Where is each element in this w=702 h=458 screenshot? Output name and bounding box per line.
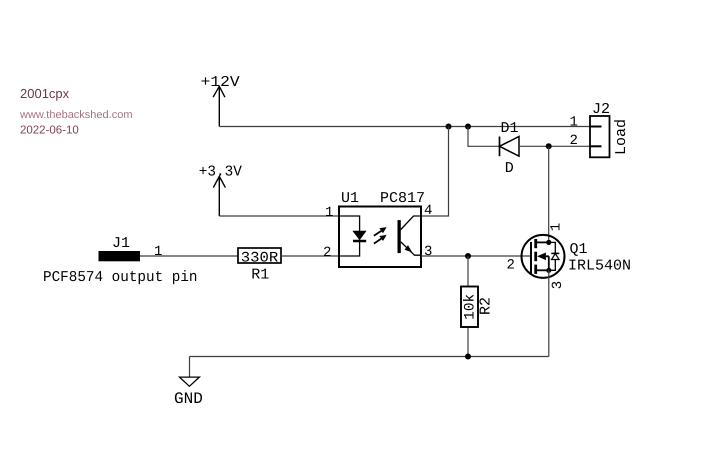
svg-text:U1: U1	[341, 190, 359, 207]
svg-text:2: 2	[570, 133, 578, 149]
ground	[174, 357, 203, 409]
svg-text:1: 1	[154, 244, 162, 260]
svg-text:PCF8574 output pin: PCF8574 output pin	[43, 269, 198, 286]
svg-text:2022-06-10: 2022-06-10	[20, 125, 79, 137]
svg-text:330R: 330R	[241, 250, 279, 266]
junction at D1 anode and Q1 drain	[546, 143, 552, 149]
transistor Q1	[522, 235, 632, 278]
junction at R2 bottom	[465, 354, 471, 360]
wire U1 pin 3 to Q1 gate	[421, 255, 531, 257]
svg-text:D1: D1	[501, 120, 519, 137]
diode D1	[500, 120, 520, 177]
svg-text:2: 2	[507, 258, 515, 274]
svg-text:1: 1	[325, 205, 333, 221]
junction on +12V rail above D1	[465, 124, 471, 130]
svg-text:+12V: +12V	[201, 74, 240, 91]
phototransistor inside U1	[398, 216, 422, 255]
svg-text:R1: R1	[251, 266, 269, 283]
junction at R2 top	[465, 253, 471, 259]
wire R1 to U1 pin 2	[281, 255, 339, 257]
svg-text:D: D	[505, 160, 514, 177]
junction on +12V rail above U1 pin 4	[446, 124, 452, 130]
wire R2 branch vertical	[467, 256, 469, 357]
svg-text:4: 4	[424, 203, 432, 219]
wire from +12V rail down to D1 cathode	[468, 127, 500, 147]
svg-text:R2: R2	[477, 297, 494, 315]
wire bottom ground rail	[190, 356, 549, 358]
photon arrows inside U1	[374, 227, 387, 244]
svg-text:3: 3	[424, 244, 432, 260]
svg-text:PC817: PC817	[380, 190, 425, 207]
connector J2	[590, 101, 630, 157]
resistor R2	[461, 287, 494, 328]
svg-text:GND: GND	[174, 390, 203, 408]
svg-text:1: 1	[549, 223, 565, 231]
wire Q1 drain vertical	[548, 146, 550, 242]
wire +12V top rail	[219, 126, 590, 128]
svg-text:IRL540N: IRL540N	[568, 258, 631, 275]
svg-text:1: 1	[570, 114, 578, 130]
svg-text:10k: 10k	[462, 294, 478, 320]
svg-text:Load: Load	[613, 119, 630, 155]
LED inside U1	[339, 216, 366, 256]
power symbol +12V	[201, 74, 240, 127]
op-amp style body of optocoupler U1 PC817	[339, 190, 425, 267]
svg-text:J2: J2	[592, 101, 610, 118]
svg-text:3: 3	[550, 281, 566, 289]
wire J1 to R1	[140, 255, 238, 257]
wire from +12V rail down to U1 pin 4	[421, 127, 449, 217]
connector J1	[99, 235, 141, 261]
power symbol +3.3V	[199, 164, 242, 216]
wire D1 anode to J2 pin 2	[519, 145, 590, 147]
svg-text:Q1: Q1	[570, 241, 588, 258]
resistor R1	[238, 248, 281, 283]
svg-text:J1: J1	[112, 235, 130, 252]
wire Q1 source vertical	[548, 270, 550, 356]
wire +3.3V to U1 pin 1	[219, 215, 339, 217]
svg-text:2: 2	[323, 245, 331, 261]
svg-text:2001cpx: 2001cpx	[20, 86, 70, 101]
svg-text:www.thebackshed.com: www.thebackshed.com	[19, 109, 133, 121]
svg-text:+3.3V: +3.3V	[199, 164, 242, 181]
